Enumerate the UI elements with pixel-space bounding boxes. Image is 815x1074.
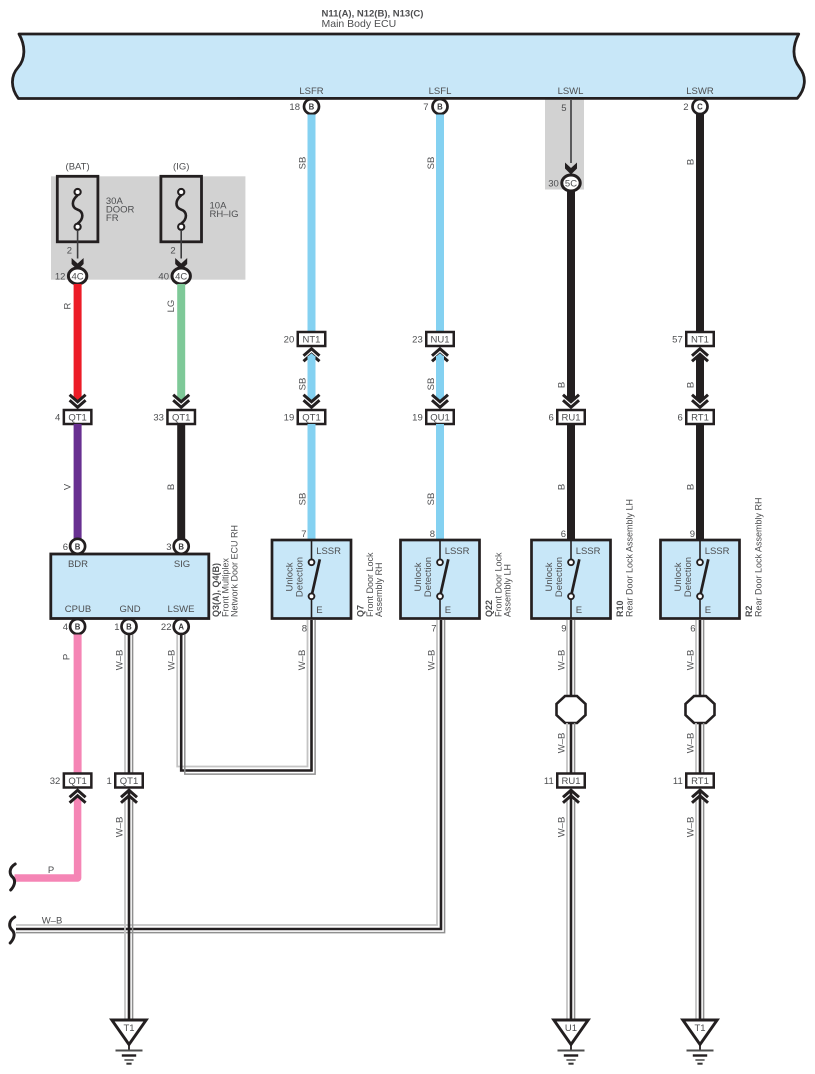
svg-text:E: E bbox=[576, 605, 582, 616]
svg-text:T1: T1 bbox=[123, 1023, 134, 1034]
svg-text:Detection: Detection bbox=[683, 557, 694, 597]
svg-text:W–B: W–B bbox=[557, 650, 568, 671]
svg-text:11: 11 bbox=[673, 776, 683, 787]
svg-text:Rear Door Lock Assembly RH: Rear Door Lock Assembly RH bbox=[753, 497, 763, 617]
svg-text:9: 9 bbox=[690, 529, 695, 540]
svg-text:GND: GND bbox=[119, 604, 140, 615]
svg-text:LSSR: LSSR bbox=[316, 546, 341, 557]
svg-text:QT1: QT1 bbox=[302, 412, 320, 423]
svg-text:B: B bbox=[75, 623, 81, 632]
svg-text:SB: SB bbox=[298, 378, 309, 391]
svg-text:20: 20 bbox=[284, 334, 295, 345]
svg-text:E: E bbox=[316, 605, 322, 616]
svg-text:23: 23 bbox=[412, 334, 423, 345]
svg-text:Assembly RH: Assembly RH bbox=[374, 562, 384, 617]
svg-text:RT1: RT1 bbox=[691, 412, 709, 423]
svg-text:Rear Door Lock Assembly LH: Rear Door Lock Assembly LH bbox=[624, 499, 634, 617]
svg-text:40: 40 bbox=[158, 271, 169, 282]
svg-text:LSFL: LSFL bbox=[429, 86, 452, 97]
svg-text:(IG): (IG) bbox=[173, 162, 189, 173]
svg-text:33: 33 bbox=[153, 412, 164, 423]
svg-text:NU1: NU1 bbox=[430, 334, 449, 345]
svg-text:QU1: QU1 bbox=[430, 412, 450, 423]
svg-text:19: 19 bbox=[284, 412, 295, 423]
svg-text:6: 6 bbox=[561, 529, 566, 540]
svg-text:5: 5 bbox=[561, 103, 566, 114]
svg-text:SB: SB bbox=[426, 378, 437, 391]
svg-text:B: B bbox=[686, 382, 697, 388]
svg-text:RU1: RU1 bbox=[561, 412, 580, 423]
svg-text:7: 7 bbox=[301, 529, 306, 540]
svg-text:6: 6 bbox=[690, 624, 695, 635]
svg-text:9: 9 bbox=[561, 624, 566, 635]
svg-text:22: 22 bbox=[161, 622, 172, 633]
svg-text:W–B: W–B bbox=[557, 817, 568, 838]
svg-text:LSSR: LSSR bbox=[576, 546, 601, 557]
svg-text:19: 19 bbox=[412, 412, 423, 423]
svg-text:R: R bbox=[63, 302, 74, 309]
svg-text:4: 4 bbox=[63, 622, 68, 633]
svg-text:Assembly LH: Assembly LH bbox=[503, 564, 513, 617]
svg-text:P: P bbox=[48, 865, 54, 876]
svg-text:SB: SB bbox=[426, 493, 437, 506]
svg-text:SB: SB bbox=[298, 157, 309, 170]
svg-text:B: B bbox=[557, 484, 568, 490]
svg-text:FR: FR bbox=[106, 213, 119, 224]
svg-text:Main Body ECU: Main Body ECU bbox=[322, 18, 397, 30]
svg-text:E: E bbox=[445, 605, 451, 616]
svg-text:4C: 4C bbox=[72, 271, 84, 282]
svg-text:3: 3 bbox=[166, 542, 171, 553]
svg-text:E: E bbox=[705, 605, 711, 616]
svg-text:C: C bbox=[697, 103, 703, 112]
svg-text:B: B bbox=[686, 159, 697, 165]
svg-text:32: 32 bbox=[50, 776, 61, 787]
svg-text:W–B: W–B bbox=[427, 650, 438, 671]
svg-text:B: B bbox=[75, 542, 81, 551]
svg-text:QT1: QT1 bbox=[172, 412, 190, 423]
svg-text:18: 18 bbox=[289, 102, 300, 113]
svg-text:B: B bbox=[126, 623, 132, 632]
svg-text:P: P bbox=[62, 654, 73, 660]
svg-text:T1: T1 bbox=[694, 1023, 705, 1034]
svg-text:LSWR: LSWR bbox=[686, 86, 714, 97]
svg-text:QT1: QT1 bbox=[68, 776, 86, 787]
svg-text:B: B bbox=[309, 103, 315, 112]
svg-text:BDR: BDR bbox=[68, 559, 88, 570]
svg-text:Network Door ECU RH: Network Door ECU RH bbox=[230, 525, 240, 617]
svg-text:W–B: W–B bbox=[167, 650, 178, 671]
svg-text:W–B: W–B bbox=[686, 733, 697, 754]
svg-text:QT1: QT1 bbox=[120, 776, 138, 787]
svg-text:LSWL: LSWL bbox=[558, 86, 584, 97]
svg-text:U1: U1 bbox=[565, 1023, 577, 1034]
svg-text:1: 1 bbox=[114, 622, 119, 633]
svg-text:CPUB: CPUB bbox=[65, 604, 91, 615]
svg-text:Detection: Detection bbox=[294, 557, 305, 597]
svg-text:8: 8 bbox=[302, 624, 307, 635]
svg-text:5C: 5C bbox=[565, 178, 577, 189]
svg-text:SIG: SIG bbox=[174, 559, 190, 570]
svg-text:4C: 4C bbox=[175, 271, 187, 282]
svg-text:12: 12 bbox=[55, 271, 66, 282]
svg-text:30: 30 bbox=[548, 178, 559, 189]
svg-text:W–B: W–B bbox=[115, 650, 126, 671]
svg-text:B: B bbox=[178, 542, 184, 551]
svg-text:7: 7 bbox=[431, 624, 436, 635]
svg-text:RH–IG: RH–IG bbox=[210, 209, 239, 220]
svg-text:W–B: W–B bbox=[297, 650, 308, 671]
svg-text:LSWE: LSWE bbox=[168, 604, 195, 615]
svg-text:W–B: W–B bbox=[42, 915, 63, 926]
svg-text:B: B bbox=[686, 484, 697, 490]
svg-text:2: 2 bbox=[683, 102, 688, 113]
svg-text:6: 6 bbox=[548, 412, 553, 423]
svg-text:LSFR: LSFR bbox=[299, 86, 323, 97]
svg-text:NT1: NT1 bbox=[303, 334, 321, 345]
svg-text:SB: SB bbox=[426, 157, 437, 170]
svg-text:QT1: QT1 bbox=[68, 412, 86, 423]
svg-text:W–B: W–B bbox=[686, 817, 697, 838]
svg-text:B: B bbox=[166, 484, 177, 490]
svg-text:Detection: Detection bbox=[554, 557, 565, 597]
svg-text:57: 57 bbox=[672, 334, 683, 345]
svg-text:B: B bbox=[557, 382, 568, 388]
svg-text:V: V bbox=[63, 483, 74, 490]
svg-text:W–B: W–B bbox=[115, 817, 126, 838]
svg-text:LSSR: LSSR bbox=[445, 546, 470, 557]
svg-text:B: B bbox=[437, 103, 443, 112]
svg-text:NT1: NT1 bbox=[691, 334, 709, 345]
svg-text:7: 7 bbox=[423, 102, 428, 113]
svg-text:RU1: RU1 bbox=[561, 776, 580, 787]
svg-text:W–B: W–B bbox=[557, 733, 568, 754]
svg-text:8: 8 bbox=[430, 529, 435, 540]
svg-text:6: 6 bbox=[63, 542, 68, 553]
svg-text:Detection: Detection bbox=[423, 557, 434, 597]
svg-text:A: A bbox=[178, 623, 184, 632]
svg-text:4: 4 bbox=[55, 412, 60, 423]
svg-text:(BAT): (BAT) bbox=[66, 162, 90, 173]
svg-text:RT1: RT1 bbox=[691, 776, 709, 787]
svg-text:W–B: W–B bbox=[686, 650, 697, 671]
svg-text:2: 2 bbox=[67, 246, 72, 257]
svg-text:2: 2 bbox=[170, 246, 175, 257]
svg-text:LG: LG bbox=[166, 300, 177, 313]
svg-text:11: 11 bbox=[544, 776, 554, 787]
svg-text:SB: SB bbox=[298, 493, 309, 506]
svg-text:1: 1 bbox=[106, 776, 111, 787]
svg-text:6: 6 bbox=[677, 412, 682, 423]
svg-text:LSSR: LSSR bbox=[705, 546, 730, 557]
